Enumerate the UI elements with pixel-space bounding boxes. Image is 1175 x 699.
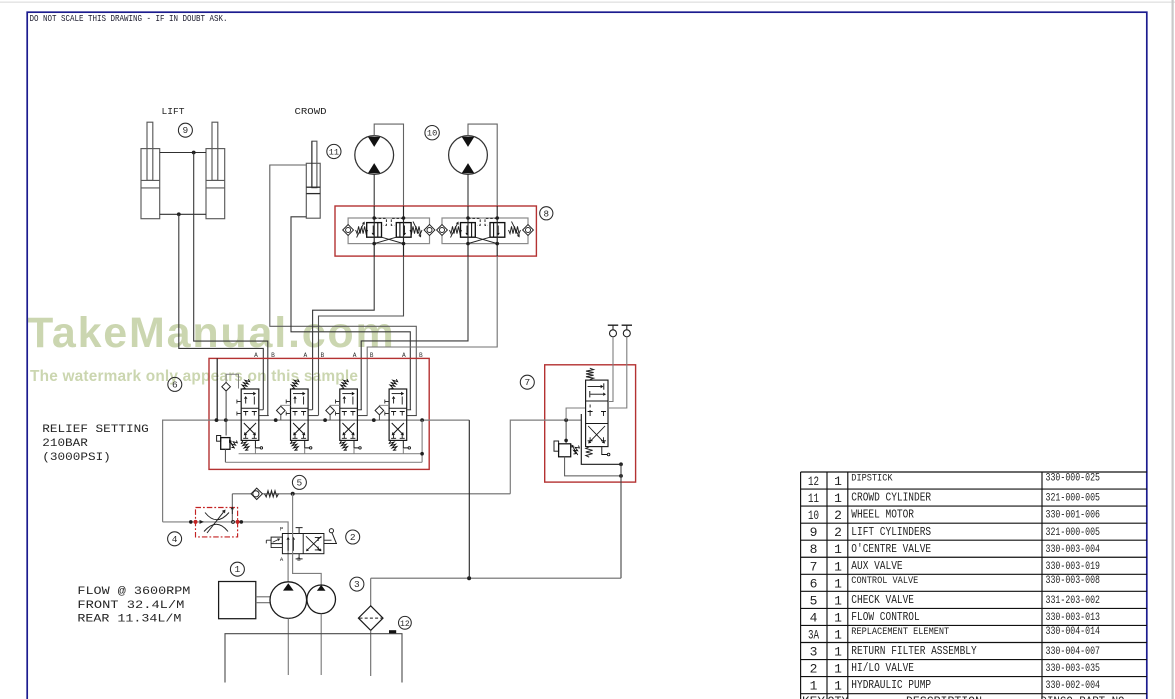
table row key 11	[808, 491, 1100, 506]
svg-text:CONTROL VALVE: CONTROL VALVE	[851, 575, 918, 586]
svg-text:330-002-004: 330-002-004	[1046, 680, 1101, 692]
quick release coupling x=626.8	[622, 324, 632, 326]
wire main to relief	[565, 420, 567, 444]
wire relief drain	[565, 457, 621, 476]
control valve section 2	[286, 379, 318, 454]
svg-text:330-003-019: 330-003-019	[1046, 561, 1101, 573]
svg-text:1: 1	[810, 679, 818, 694]
wire motor2 bottom port	[467, 174, 469, 206]
wire motor1 top port	[374, 124, 403, 206]
o-centre valve left pair (motor 1)	[343, 206, 435, 256]
junction	[215, 418, 219, 422]
wire motor1 right line to valve A2	[319, 256, 404, 416]
svg-text:321-000-005: 321-000-005	[1046, 527, 1101, 539]
check valve section 1	[222, 382, 231, 391]
svg-text:B: B	[297, 556, 301, 563]
check valve section 3	[326, 406, 335, 415]
svg-text:1: 1	[834, 593, 842, 608]
svg-text:DO NOT SCALE THIS DRAWING - IF: DO NOT SCALE THIS DRAWING - IF IN DOUBT …	[30, 14, 228, 24]
return filter	[358, 606, 383, 631]
table row key 3A	[808, 626, 1100, 642]
svg-text:11: 11	[808, 491, 819, 506]
svg-text:12: 12	[400, 620, 410, 629]
crowd cylinder rod	[312, 141, 317, 188]
wire open-centre drain	[468, 420, 470, 578]
svg-text:B: B	[419, 352, 423, 359]
check valve section 2	[277, 406, 286, 415]
wire pump pressure line	[232, 493, 510, 495]
svg-text:10: 10	[808, 508, 819, 523]
svg-text:330-003-004: 330-003-004	[1046, 544, 1101, 556]
junction	[564, 418, 568, 422]
parts table	[801, 472, 1147, 699]
svg-text:1: 1	[834, 491, 842, 506]
wire lift rod to valve B1	[194, 153, 268, 416]
junction	[619, 474, 623, 478]
svg-text:2: 2	[834, 525, 842, 540]
svg-text:321-000-005: 321-000-005	[1046, 493, 1101, 505]
check valve section 4	[375, 406, 384, 415]
svg-text:A: A	[402, 352, 406, 359]
wire bleed to check line	[231, 494, 233, 522]
wire tank return from hi/lo to rear pump	[293, 494, 322, 585]
key 6	[168, 377, 182, 391]
hydraulic pump rear	[307, 585, 336, 614]
svg-text:330-003-008: 330-003-008	[1046, 575, 1101, 587]
svg-text:1: 1	[834, 645, 842, 660]
aux relief valve	[554, 441, 559, 451]
wire motor2 left line to valve B3	[361, 256, 468, 410]
coupling lines	[256, 596, 271, 598]
svg-text:1: 1	[834, 679, 842, 694]
svg-text:CROWD CYLINDER: CROWD CYLINDER	[851, 492, 931, 505]
svg-text:7: 7	[810, 559, 818, 574]
key 8	[540, 207, 553, 220]
svg-text:DIPSTICK: DIPSTICK	[851, 473, 892, 484]
svg-text:LIFT CYLINDERS: LIFT CYLINDERS	[851, 526, 931, 539]
lift cylinder piston	[206, 179, 225, 181]
junction	[420, 418, 424, 422]
wire motor2 top port	[468, 124, 497, 206]
table row key 1	[810, 679, 1101, 694]
aux valve body	[586, 380, 608, 447]
o-centre valve block key 8 red box	[335, 206, 536, 256]
hi/lo left position arrows	[287, 540, 289, 551]
lift cylinder piston	[141, 179, 160, 181]
svg-text:FLOW @ 3600RPM: FLOW @ 3600RPM	[77, 586, 190, 598]
aux valve pilot	[602, 447, 608, 455]
key 1	[230, 562, 244, 576]
table row key 12	[808, 473, 1100, 489]
svg-text:A: A	[280, 556, 284, 563]
lever stub	[324, 539, 332, 541]
lift cylinder body x=206.0	[206, 149, 225, 219]
svg-text:WHEEL MOTOR: WHEEL MOTOR	[851, 509, 914, 522]
hi/lo right position X	[306, 536, 319, 549]
svg-text:KEY: KEY	[802, 696, 825, 699]
key 4	[168, 532, 182, 546]
svg-text:8: 8	[544, 208, 550, 219]
table row key 2	[810, 662, 1100, 677]
port T symbol top	[296, 528, 303, 534]
key 10	[425, 126, 439, 140]
svg-text:FRONT 32.4L/M: FRONT 32.4L/M	[77, 600, 184, 612]
svg-text:DINGO PART NO: DINGO PART NO	[1041, 696, 1125, 699]
tank	[225, 634, 402, 683]
svg-text:9: 9	[810, 525, 818, 540]
control valve key 6 red box	[209, 358, 429, 469]
svg-text:6: 6	[810, 576, 818, 591]
wire filter to tank	[370, 630, 372, 676]
wire lift base-end ports	[160, 213, 206, 215]
wire lift base to valve A1	[179, 214, 263, 409]
check valve 5	[251, 488, 262, 499]
wire aux drain to tank rail	[620, 464, 622, 578]
wire crowd base to valve A4	[291, 217, 410, 410]
svg-text:A: A	[303, 352, 307, 359]
wire front pump suction	[287, 618, 289, 675]
o-centre valve right pair (motor 2)	[437, 206, 534, 256]
svg-text:REAR 11.34L/M: REAR 11.34L/M	[77, 613, 181, 625]
junction	[467, 576, 471, 580]
junction	[192, 151, 196, 155]
svg-text:330-000-025: 330-000-025	[1046, 473, 1101, 485]
svg-text:2: 2	[350, 532, 356, 543]
svg-text:330-003-035: 330-003-035	[1046, 663, 1101, 675]
flow control key 4 dashed red box	[196, 508, 238, 537]
svg-text:B: B	[370, 352, 374, 359]
svg-text:CROWD: CROWD	[295, 107, 327, 117]
svg-text:10: 10	[427, 129, 437, 139]
svg-text:HYDRAULIC PUMP: HYDRAULIC PUMP	[851, 679, 931, 692]
wire flow control to hi/lo P	[163, 522, 289, 582]
svg-text:3: 3	[354, 579, 360, 590]
svg-text:1: 1	[834, 576, 842, 591]
control valve section 3	[336, 379, 368, 454]
svg-text:2: 2	[834, 508, 842, 523]
svg-text:6: 6	[172, 379, 178, 390]
svg-text:11: 11	[329, 148, 339, 158]
svg-text:330-004-007: 330-004-007	[1046, 646, 1101, 658]
svg-text:(3000PSI): (3000PSI)	[42, 452, 111, 464]
svg-text:1: 1	[235, 564, 241, 575]
crowd cylinder piston	[306, 186, 320, 188]
lift cylinder rod	[212, 122, 218, 180]
junction	[323, 418, 327, 422]
svg-text:331-203-002: 331-203-002	[1046, 595, 1101, 607]
svg-text:2: 2	[810, 662, 818, 677]
aux spool bottom position	[588, 426, 603, 441]
svg-text:RETURN FILTER ASSEMBLY: RETURN FILTER ASSEMBLY	[851, 645, 976, 658]
wire feed to aux spool	[566, 408, 586, 420]
svg-text:A: A	[353, 352, 357, 359]
svg-text:LIFT: LIFT	[162, 107, 186, 117]
faint top edge line	[0, 1, 1175, 3]
wire feed to aux valve	[510, 420, 581, 494]
quick release coupling x=613.0	[608, 324, 618, 326]
table row key 3	[810, 645, 1100, 660]
wire motor1 left line to valve B2	[313, 256, 375, 410]
junction	[291, 492, 295, 496]
svg-text:O'CENTRE VALVE: O'CENTRE VALVE	[851, 543, 931, 556]
svg-text:RELIEF SETTING: RELIEF SETTING	[42, 424, 149, 436]
svg-text:3A: 3A	[808, 627, 819, 642]
svg-text:QTY: QTY	[828, 696, 849, 699]
table row key 6	[810, 575, 1100, 591]
aux valve top spring	[586, 368, 594, 379]
engine box	[219, 582, 256, 619]
svg-text:CHECK VALVE: CHECK VALVE	[851, 594, 914, 607]
control valve section 1	[237, 379, 269, 454]
key 11	[327, 144, 341, 158]
svg-text:A: A	[254, 352, 258, 359]
table row key 9	[810, 525, 1100, 540]
table header row	[802, 696, 1125, 699]
port T symbol bottom	[296, 554, 303, 559]
key 9	[178, 123, 192, 137]
manual lever	[324, 543, 337, 545]
key 5	[292, 475, 306, 489]
connection dots	[189, 520, 193, 524]
key 2	[346, 530, 360, 544]
svg-text:12: 12	[808, 474, 819, 489]
junction	[177, 212, 181, 216]
key 3	[350, 577, 364, 591]
key 12	[399, 616, 412, 629]
hydraulic pump front	[270, 582, 307, 619]
wheel motor x=468.0	[449, 136, 488, 175]
crowd cylinder body	[306, 163, 320, 218]
svg-text:4: 4	[172, 534, 178, 545]
svg-text:210BAR: 210BAR	[42, 438, 88, 450]
svg-text:5: 5	[297, 477, 303, 488]
wire crowd rod-end to valve B4	[270, 165, 417, 416]
svg-text:8: 8	[810, 542, 818, 557]
svg-text:4: 4	[810, 610, 818, 625]
svg-text:DESCRIPTION: DESCRIPTION	[906, 696, 982, 699]
hi/lo valve body	[282, 534, 324, 554]
table row key 8	[810, 542, 1101, 557]
lift cylinder rod	[147, 122, 153, 180]
flow restrictor	[205, 513, 229, 520]
svg-text:5: 5	[810, 593, 818, 608]
junction	[224, 418, 228, 422]
svg-text:P: P	[280, 526, 284, 533]
junction	[274, 418, 278, 422]
wheel motor x=374.2	[355, 136, 394, 175]
aux drain frame	[581, 414, 621, 464]
wire motor1 bottom port	[373, 174, 375, 206]
svg-text:1: 1	[834, 662, 842, 677]
key 7	[520, 375, 534, 389]
svg-text:B: B	[271, 352, 275, 359]
wire lift rod-end ports	[160, 152, 206, 154]
wire rear pump suction	[320, 614, 322, 675]
page right edge	[1171, 0, 1173, 699]
relief valve	[217, 436, 221, 442]
svg-text:B: B	[320, 352, 324, 359]
junction	[619, 462, 623, 466]
wire rail to filter	[370, 578, 372, 606]
control valve section 4	[385, 379, 417, 454]
svg-text:330-001-006: 330-001-006	[1046, 510, 1101, 522]
table row key 10	[808, 508, 1100, 523]
drain rails	[239, 453, 423, 455]
svg-text:7: 7	[524, 377, 530, 388]
svg-text:3: 3	[810, 645, 818, 660]
svg-text:330-004-014: 330-004-014	[1046, 626, 1101, 638]
svg-text:1: 1	[834, 542, 842, 557]
svg-text:9: 9	[183, 125, 189, 136]
aux valve key 7 red box	[545, 365, 636, 482]
wire motor2 right line to valve A3	[367, 256, 497, 416]
svg-text:REPLACEMENT ELEMENT: REPLACEMENT ELEMENT	[851, 626, 949, 637]
table row key 7	[810, 559, 1100, 574]
main gallery line and feed to flow control	[163, 420, 470, 522]
table row key 4	[810, 610, 1100, 625]
svg-text:HI/LO VALVE: HI/LO VALVE	[851, 662, 914, 675]
svg-text:1: 1	[834, 474, 842, 489]
junction	[372, 418, 376, 422]
aux spool top position	[588, 386, 601, 388]
svg-text:FLOW CONTROL: FLOW CONTROL	[851, 611, 919, 624]
svg-text:330-003-013: 330-003-013	[1046, 612, 1101, 624]
watermark	[27, 312, 396, 355]
table row key 5	[810, 593, 1100, 608]
svg-text:1: 1	[834, 559, 842, 574]
svg-text:1: 1	[834, 627, 842, 642]
wire tank return rail	[371, 577, 621, 579]
svg-text:1: 1	[834, 610, 842, 625]
dipstick key 12	[389, 630, 396, 634]
aux valve bottom spring	[586, 447, 593, 457]
aux spool centre position	[588, 412, 593, 417]
pilot box	[271, 537, 282, 544]
lift cylinder body x=141.0	[141, 149, 160, 219]
inlet rail	[216, 358, 218, 420]
check valve spring	[265, 491, 279, 497]
svg-text:AUX VALVE: AUX VALVE	[851, 560, 902, 573]
